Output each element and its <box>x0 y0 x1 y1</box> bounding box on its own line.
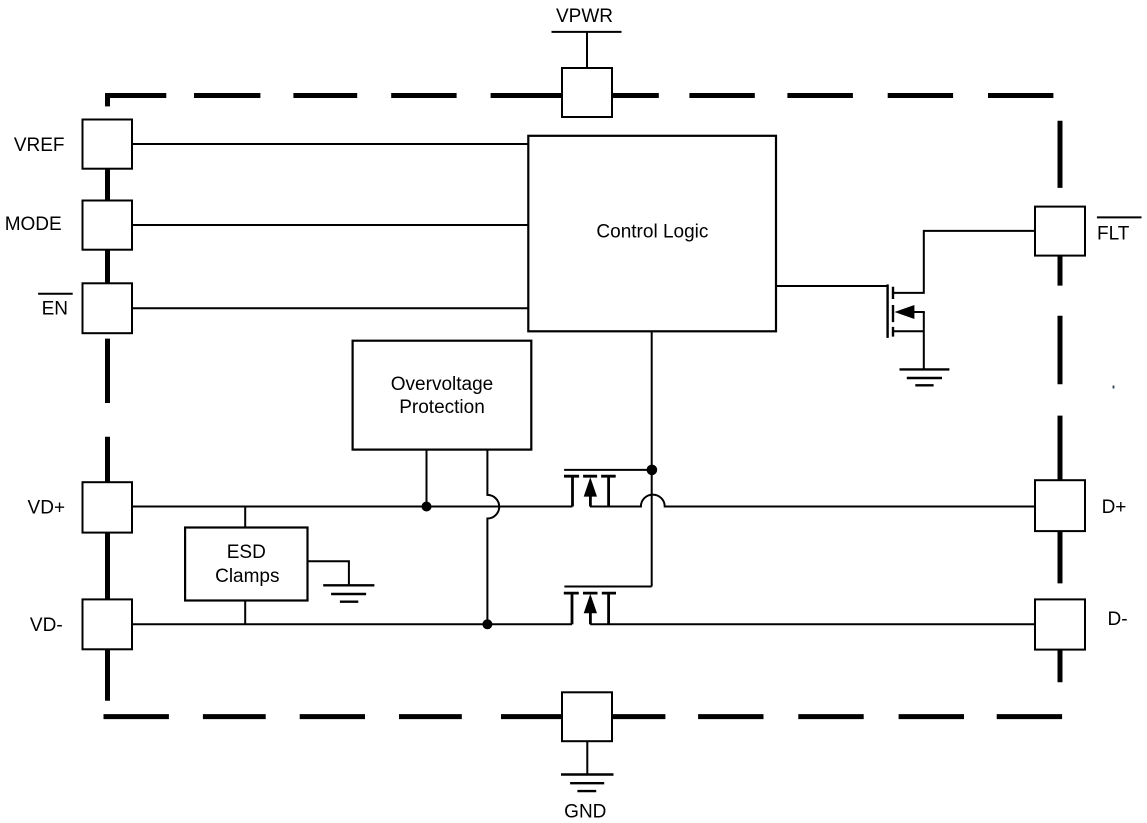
wire ESD Clamps bottom to VD- net <box>244 601 246 625</box>
Overvoltage Protection block <box>353 341 532 450</box>
pin VD+ <box>83 482 133 532</box>
svg-text:VPWR: VPWR <box>556 6 613 27</box>
wire VPWR bar to VPWR pin <box>586 32 588 68</box>
wire GND pin to ground <box>586 741 588 774</box>
IC boundary dashed border, left side <box>105 169 110 701</box>
pin FLT <box>1035 207 1085 256</box>
transistor Q2 source stub <box>571 595 574 625</box>
transistor Q1 gate line <box>564 469 652 471</box>
IC boundary dashed border, bottom side <box>104 714 1063 719</box>
transistor Q2 body arrow <box>584 594 597 613</box>
svg-text:Protection: Protection <box>399 397 485 418</box>
svg-text:D-: D- <box>1107 609 1127 630</box>
ground symbol at Q3 source <box>900 369 950 385</box>
svg-text:Control Logic: Control Logic <box>596 222 708 243</box>
transistor Q3 source wire to ground <box>894 312 924 370</box>
ground symbol at ESD Clamps <box>323 585 374 601</box>
node A dot on VD+ net <box>422 502 432 512</box>
pin EN <box>83 283 133 333</box>
label EN overline <box>38 293 73 295</box>
wire Q1 drain to D+ with hop over gate feed <box>590 495 1035 507</box>
wire EN to Control Logic <box>132 307 528 309</box>
ESD Clamps block <box>185 528 307 601</box>
transistor Q1 drain stub <box>607 477 610 506</box>
transistor Q1 body arrow <box>584 477 597 496</box>
ground symbol at GND pin <box>561 775 614 792</box>
pin VPWR <box>562 68 612 117</box>
wire Overvoltage Protection to VD- net with hop over VD+ wire <box>487 450 499 625</box>
Control Logic block <box>528 136 776 331</box>
svg-text:FLT: FLT <box>1097 224 1130 245</box>
svg-text:VREF: VREF <box>14 135 65 156</box>
IC boundary dashed border, top side <box>105 93 1053 98</box>
svg-text:Overvoltage: Overvoltage <box>391 374 493 395</box>
node B dot on VD- net <box>482 619 492 629</box>
pin D+ <box>1035 480 1085 531</box>
stray mark <box>1113 386 1115 389</box>
pin D- <box>1035 599 1085 649</box>
svg-text:VD+: VD+ <box>28 498 66 519</box>
wire ESD Clamps to ground <box>308 561 349 585</box>
svg-text:MODE: MODE <box>5 214 62 235</box>
wire Control Logic to gate node A (vertical gate feed) <box>651 331 653 586</box>
wire MODE to Control Logic <box>132 224 528 226</box>
svg-text:D+: D+ <box>1102 497 1127 518</box>
transistor Q3 body arrow <box>895 305 915 319</box>
label FLT overline <box>1097 216 1142 218</box>
transistor Q2 gate line <box>564 586 651 588</box>
transistor Q3 gate bar <box>886 284 888 338</box>
transistor Q2 body arrow shaft <box>589 612 592 625</box>
IC boundary dashed border, top-left corner <box>105 94 110 106</box>
svg-text:GND: GND <box>564 802 606 823</box>
wire VD- to D- through Q2 <box>132 623 1035 625</box>
pin VREF <box>83 120 133 169</box>
node C dot gate junction <box>647 465 658 476</box>
transistor Q1 body arrow shaft <box>589 495 592 507</box>
transistor Q3 channel dashes <box>892 287 894 337</box>
svg-text:VD-: VD- <box>30 615 63 636</box>
transistor Q3 body wire <box>914 311 925 313</box>
transistor Q1 source stub <box>571 477 574 506</box>
transistor Q3 drain wire to FLT <box>894 231 1036 293</box>
wire VREF to Control Logic <box>132 143 528 145</box>
transistor Q2 drain stub <box>607 595 610 625</box>
IC boundary dashed border, right side <box>1058 121 1063 683</box>
wire VD+ to Q1 source <box>132 506 572 508</box>
svg-text:EN: EN <box>42 299 68 320</box>
wire ESD Clamps top to VD+ net <box>244 507 246 528</box>
pin MODE <box>83 201 133 250</box>
wire Control Logic to Q3 gate <box>776 285 889 287</box>
svg-text:ESD: ESD <box>227 542 266 563</box>
transistor Q2 channel dashes <box>564 592 616 595</box>
pin GND <box>562 692 612 741</box>
svg-text:Clamps: Clamps <box>215 566 279 587</box>
wire Overvoltage Protection to VD+ net <box>426 450 428 507</box>
pin VD- <box>83 599 133 649</box>
transistor Q1 channel dashes <box>564 475 616 478</box>
VPWR power bar <box>552 31 622 33</box>
